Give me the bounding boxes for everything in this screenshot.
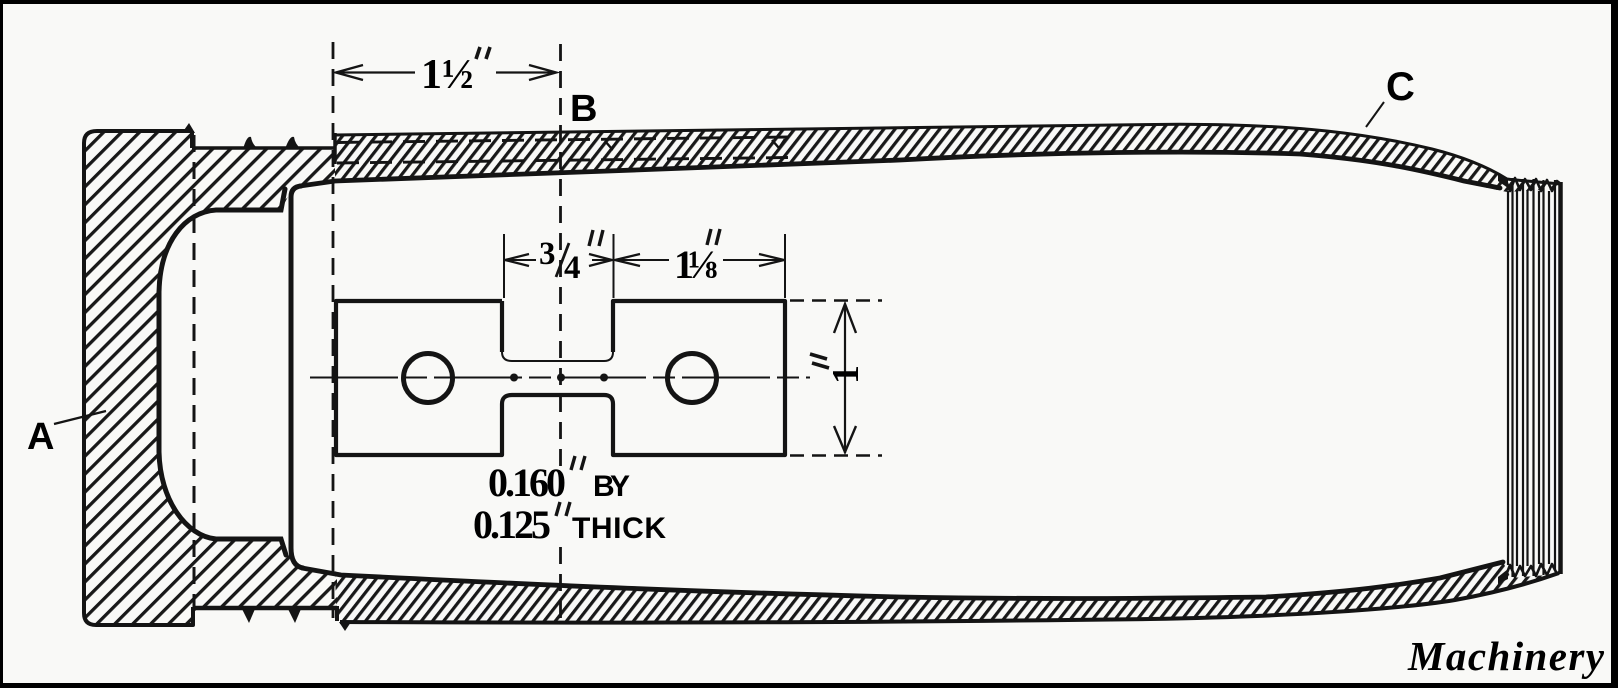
dome pocket outline bbox=[159, 189, 286, 555]
svg-text:3: 3 bbox=[539, 236, 556, 272]
svg-text:THICK: THICK bbox=[572, 512, 666, 545]
thread bump on wall top at x248 bbox=[243, 137, 258, 149]
specimen hole left bbox=[404, 354, 453, 403]
svg-text:Machinery: Machinery bbox=[1407, 633, 1605, 679]
cap A outline bbox=[84, 131, 193, 625]
extension line left of 3/4 dim bbox=[503, 234, 505, 298]
bottom tooth at x248 bbox=[242, 609, 255, 623]
bottom tooth at band start bbox=[339, 622, 351, 631]
svg-text:B: B bbox=[570, 88, 597, 130]
body wall bottom edge bbox=[193, 606, 337, 611]
bottom step at band start bbox=[335, 606, 339, 621]
dimension 1-1/8 line bbox=[614, 259, 785, 261]
svg-text:1⅛: 1⅛ bbox=[674, 242, 718, 287]
extension line right dim bbox=[784, 234, 786, 298]
cavity bottom line bbox=[302, 562, 1503, 599]
specimen gauge dots bbox=[510, 374, 518, 382]
frame bottom bbox=[0, 683, 1618, 688]
extension line mid dim bbox=[613, 234, 615, 298]
vertical dim 1 inch line bbox=[844, 306, 846, 453]
arrowhead right 1-1/8 bbox=[759, 254, 784, 266]
frame left bbox=[0, 0, 3, 688]
arrowhead right 1-1/2 bbox=[529, 65, 556, 80]
bottom shell band hatched bbox=[335, 562, 1559, 623]
dashed datum line x333 bbox=[332, 42, 335, 618]
cavity top line bbox=[300, 152, 1500, 188]
rotated double prime bbox=[810, 354, 829, 368]
dimension 3/4 line bbox=[504, 259, 613, 261]
svg-text:0.160: 0.160 bbox=[488, 460, 566, 505]
arrowhead left 3/4 bbox=[505, 254, 529, 266]
svg-text:BY: BY bbox=[593, 470, 630, 503]
dome pocket (white cavity in cap) bbox=[159, 189, 292, 557]
arrowhead left 1-1/8 bbox=[615, 254, 640, 266]
corrugation root wedge bottom bbox=[1498, 569, 1508, 584]
svg-text:0.125: 0.125 bbox=[473, 502, 551, 547]
arrowhead up bbox=[834, 304, 856, 333]
dashed extension top right of specimen bbox=[790, 299, 882, 301]
corrugated fold end: bottom zigzag bbox=[1505, 564, 1561, 578]
arrowhead down bbox=[834, 426, 856, 452]
corrugation root wedge top bbox=[1498, 174, 1508, 188]
hidden thread line lower in top band bbox=[337, 158, 788, 164]
dimension 1-1/2 line bbox=[338, 71, 554, 73]
hidden thread V at x612 bbox=[605, 140, 618, 149]
svg-text:1½: 1½ bbox=[421, 52, 474, 98]
leader line A bbox=[54, 411, 106, 424]
specimen hole right bbox=[668, 354, 717, 403]
bottom band outer edge bbox=[340, 573, 1559, 623]
dashed datum line B x560.5 bbox=[559, 44, 562, 466]
hidden thread V at x779 bbox=[772, 139, 785, 148]
specimen centerline bbox=[310, 377, 810, 379]
specimen outline bbox=[336, 301, 785, 455]
hidden thread line upper in top band bbox=[337, 137, 788, 143]
arrowhead left 1-1/2 bbox=[336, 65, 363, 80]
frame top bbox=[0, 0, 1618, 4]
thread point on cap corner bbox=[182, 123, 195, 133]
arrowhead right 3/4 bbox=[589, 254, 612, 266]
leader line C bbox=[1366, 102, 1384, 127]
right outer edge of folds bbox=[1558, 182, 1563, 574]
svg-text:1: 1 bbox=[825, 365, 867, 384]
svg-text:C: C bbox=[1386, 65, 1415, 109]
svg-text:A: A bbox=[27, 416, 54, 458]
top shell band hatched bbox=[335, 124, 1560, 192]
top band outer edge bbox=[335, 124, 1561, 184]
dashed parting line through dome x194 bbox=[193, 135, 196, 620]
corrugated fold end: top zigzag bbox=[1505, 178, 1561, 191]
corrugation fold lines bbox=[1508, 178, 1555, 577]
cap and body walls hatched region bbox=[84, 132, 337, 625]
frame right bbox=[1611, 0, 1618, 688]
thread bump on wall top at x292 bbox=[285, 137, 301, 149]
body wall top edge bbox=[192, 146, 336, 150]
cavity left wall vertical line with corners bbox=[291, 186, 303, 568]
specimen waist top thin line bbox=[502, 352, 613, 361]
dashed extension bottom right of specimen bbox=[790, 454, 882, 456]
svg-text:4: 4 bbox=[564, 250, 581, 286]
top band left edge bbox=[333, 133, 337, 164]
bottom tooth at x294 bbox=[288, 609, 301, 623]
